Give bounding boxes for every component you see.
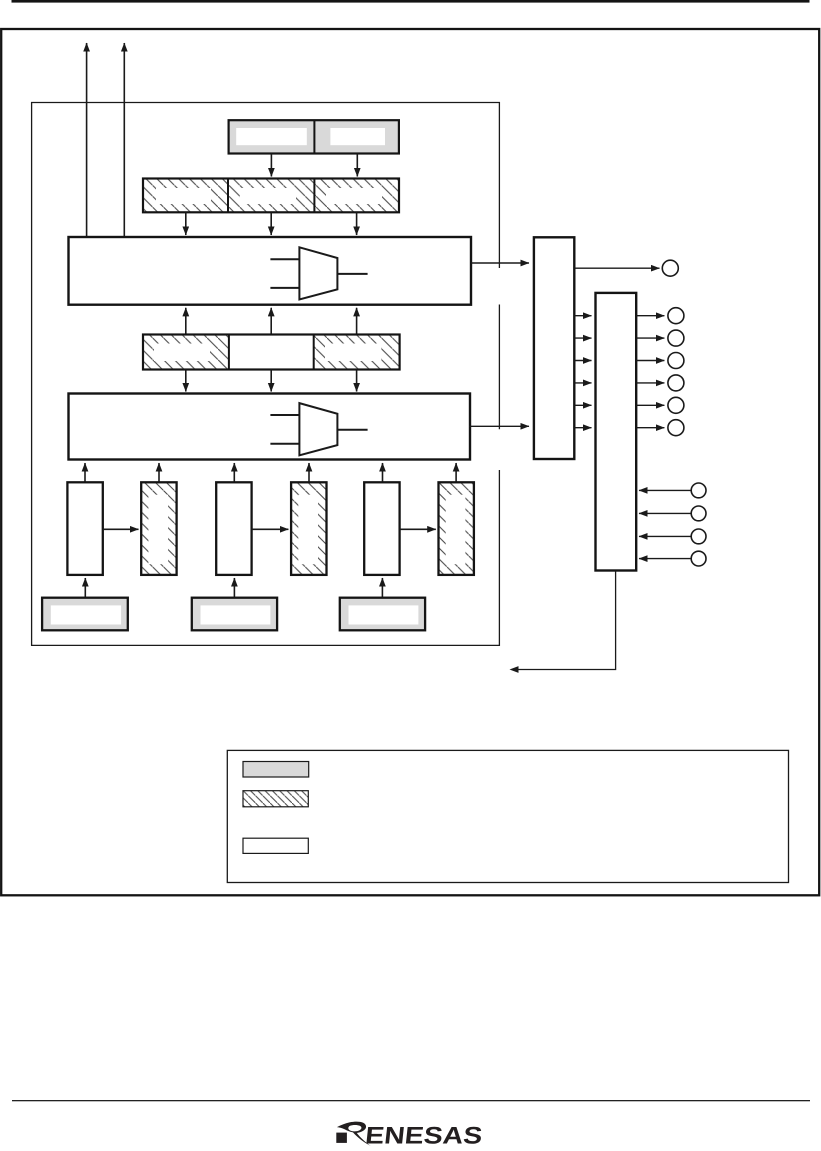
buffer register hatched 2 xyxy=(291,482,326,575)
wire comparator upper to output controller xyxy=(471,262,529,264)
wire controller to top pin xyxy=(574,267,659,269)
comparator block upper xyxy=(69,237,472,305)
wire gray reg 1 up xyxy=(84,578,86,598)
control register pair (gray) xyxy=(229,120,399,153)
compare register row (hatched, 3 cells) xyxy=(143,179,399,213)
legend gray swatch xyxy=(243,762,309,778)
wire control reg to compare register (left) xyxy=(270,154,272,177)
wires selector to output pins (6) xyxy=(636,316,664,428)
wire gray reg 2 up xyxy=(233,578,235,598)
legend hatched swatch xyxy=(243,791,308,807)
shadow register gray 3 xyxy=(340,598,425,631)
interrupt request line 2 xyxy=(123,43,125,237)
page top rule xyxy=(12,0,810,3)
wire compare row to comparator block A xyxy=(185,212,187,235)
counter register row (hatched-white-hatched) xyxy=(143,335,400,370)
interrupt request line 1 xyxy=(86,43,88,237)
comparator symbol lower xyxy=(270,403,367,455)
svg-text:ENESAS: ENESAS xyxy=(364,1122,484,1146)
wires match registers to comparator lower xyxy=(85,463,456,482)
wire control reg to compare register (right) xyxy=(356,154,358,177)
wire white reg 2 to buffer 2 xyxy=(252,528,289,530)
module inner frame (right edge has label gaps) xyxy=(32,103,500,646)
match register white 1 xyxy=(67,482,102,575)
top output pin circle xyxy=(662,260,678,276)
match register white 3 xyxy=(364,482,399,575)
output pin circles (6) xyxy=(668,308,684,436)
match register white 2 xyxy=(216,482,251,575)
footer rule xyxy=(12,1100,810,1101)
wire compare row to comparator block B xyxy=(270,212,272,235)
legend white swatch xyxy=(243,838,308,853)
comparator symbol upper xyxy=(270,247,367,299)
shadow register gray 2 xyxy=(192,598,277,631)
wire white reg 1 to buffer 1 xyxy=(103,528,139,530)
shadow register gray 1 xyxy=(42,598,128,631)
buffer register hatched 1 xyxy=(141,482,176,575)
Renesas logo xyxy=(336,1122,483,1150)
wire counter row to comparator lower (mid) xyxy=(270,370,272,392)
input pin circles (4) xyxy=(691,483,706,566)
wire compare row to comparator block C xyxy=(356,212,358,235)
output controller block xyxy=(534,237,574,459)
figure outer frame xyxy=(1,29,819,895)
wire gray reg 3 up xyxy=(381,578,383,598)
legend box xyxy=(227,750,788,882)
pin selector block xyxy=(596,293,637,571)
wires input pins to selector (4) xyxy=(639,490,691,558)
wire counter row to comparator lower (right) xyxy=(356,370,358,392)
wires controller to pin selector (6) xyxy=(574,316,591,428)
wire counter row to comparator upper (mid) xyxy=(270,308,272,336)
wire counter row to comparator lower (left) xyxy=(185,370,187,392)
wire white reg 3 to buffer 3 xyxy=(400,528,436,530)
bus wire selector bottom to internal bus xyxy=(518,571,616,670)
buffer register hatched 3 xyxy=(439,482,474,575)
wire counter row to comparator upper (right) xyxy=(356,308,358,336)
comparator block lower xyxy=(69,394,471,460)
wire comparator lower to output controller xyxy=(469,425,529,427)
wire counter row to comparator upper (left) xyxy=(185,308,187,336)
